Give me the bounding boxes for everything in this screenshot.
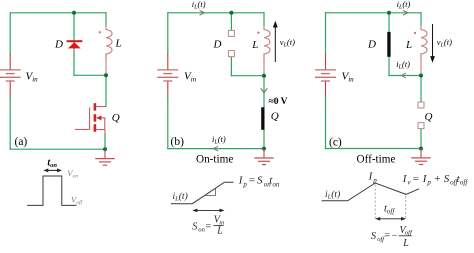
svg-text:iL(t): iL(t)	[396, 59, 410, 71]
svg-text:p: p	[426, 179, 431, 187]
svg-text:S: S	[371, 231, 376, 242]
svg-text:Von: Von	[67, 168, 78, 180]
svg-text:(c): (c)	[329, 137, 342, 149]
svg-text:On-time: On-time	[196, 154, 233, 166]
svg-text:S: S	[444, 173, 450, 185]
svg-text:iL(t): iL(t)	[173, 191, 188, 203]
svg-text:ton: ton	[47, 157, 57, 169]
svg-text:D: D	[367, 39, 376, 51]
svg-text:≈0 V: ≈0 V	[269, 97, 288, 107]
svg-text:on: on	[198, 226, 205, 233]
svg-text:L: L	[405, 39, 412, 51]
svg-text:vL(t): vL(t)	[437, 37, 452, 49]
svg-text:v: v	[408, 179, 412, 187]
svg-text:Q: Q	[271, 111, 279, 123]
svg-text:S: S	[257, 175, 263, 187]
svg-text:(a): (a)	[15, 136, 28, 148]
svg-text:D: D	[213, 39, 222, 51]
svg-text:off: off	[460, 179, 468, 187]
svg-text:Q: Q	[112, 112, 120, 124]
svg-text:=: =	[249, 175, 255, 187]
svg-text:vL(t): vL(t)	[280, 37, 295, 49]
svg-text:(b): (b)	[171, 136, 185, 148]
svg-text:Off-time: Off-time	[357, 154, 396, 166]
svg-text:L: L	[216, 225, 223, 236]
svg-text:L: L	[402, 238, 409, 248]
svg-text:L: L	[115, 38, 122, 50]
svg-text:Voff: Voff	[71, 195, 83, 207]
svg-text:Q: Q	[425, 111, 433, 123]
svg-text:on: on	[273, 180, 281, 188]
svg-text:toff: toff	[384, 204, 395, 216]
svg-text:−: −	[392, 231, 398, 242]
svg-text:S: S	[192, 222, 197, 233]
svg-text:Vin: Vin	[342, 71, 355, 84]
svg-text:p: p	[242, 180, 247, 188]
svg-text:Vin: Vin	[184, 71, 197, 84]
svg-text:D: D	[54, 39, 63, 51]
svg-text:iL(t): iL(t)	[397, 0, 411, 10]
svg-text:iL(t): iL(t)	[212, 134, 226, 146]
svg-text:=: =	[413, 173, 419, 185]
svg-text:=: =	[206, 222, 212, 233]
svg-text:iL(t): iL(t)	[325, 189, 340, 201]
svg-text:L: L	[251, 39, 258, 51]
svg-text:iL(t): iL(t)	[192, 0, 206, 10]
svg-text:+: +	[434, 173, 440, 185]
svg-text:Vin: Vin	[26, 71, 39, 84]
svg-text:p: p	[372, 176, 377, 184]
svg-text:=: =	[384, 231, 390, 242]
